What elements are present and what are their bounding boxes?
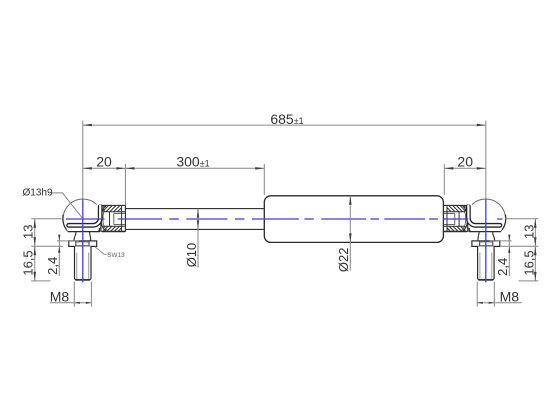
- svg-text:2,4: 2,4: [45, 257, 60, 275]
- left ball joint: threaded fitting body: [101, 205, 126, 231]
- svg-text:13: 13: [21, 224, 36, 238]
- svg-text:13: 13: [522, 225, 537, 239]
- right ball joint: housing corner patch: [468, 203, 472, 212]
- left ball joint: socket cup cavity: [103, 212, 111, 227]
- dimension 20 (right): [444, 167, 486, 169]
- left ball joint: ball circle: [63, 199, 103, 231]
- dimension 16,5 (left): [34, 246, 36, 281]
- cylinder tube: [264, 196, 443, 243]
- right ball joint: ball circle: [466, 199, 506, 231]
- left ball joint: fitting hatch bottom: [103, 226, 105, 228]
- right ball joint: stud shoulder line: [478, 251, 495, 253]
- right ball joint: threaded fitting body: [443, 205, 468, 231]
- dimension 16,5 (right): [534, 246, 536, 281]
- right ball joint: stud neck: [493, 232, 495, 241]
- dimension 2,4 (right): [508, 235, 510, 276]
- svg-text:Ø22: Ø22: [336, 248, 351, 273]
- right ball joint: fitting inner thread lines: [443, 211, 465, 213]
- dimension Ø10 rod: [197, 209, 199, 268]
- right ball joint: socket cup cavity: [458, 212, 466, 227]
- svg-text:16,5: 16,5: [21, 250, 36, 275]
- dimension 2,4 (left): [58, 235, 60, 276]
- right ball joint: fitting hatch top: [464, 206, 466, 208]
- dimension 685±1: [83, 124, 486, 126]
- dimension M8 (right): [477, 302, 521, 304]
- dimension M8 (left): [50, 302, 92, 304]
- left ball joint: stud shoulder line: [75, 251, 92, 253]
- right ball joint: housing body: [444, 229, 501, 232]
- svg-text:20: 20: [457, 153, 473, 169]
- left ball vertical centerline: [82, 199, 84, 283]
- right ball vertical centerline: [485, 199, 487, 283]
- label SW13 with leader: [95, 247, 107, 255]
- svg-text:16,5: 16,5: [522, 250, 537, 275]
- left ball joint: hex nut SW13: [69, 241, 97, 247]
- right ball joint: fitting hatch bottom: [464, 226, 466, 228]
- svg-text:2,4: 2,4: [495, 258, 510, 276]
- left ball joint: housing body: [68, 229, 125, 232]
- svg-text:Ø13h9: Ø13h9: [23, 188, 53, 199]
- left ball joint: fitting inner thread lines: [103, 211, 125, 213]
- dimension 300±1: [125, 167, 264, 169]
- label Ø13h9 with leader: [51, 193, 83, 219]
- dimension Ø22 cylinder: [349, 196, 351, 271]
- left ball joint: threaded stud M8: [75, 246, 92, 279]
- svg-text:SW13: SW13: [107, 252, 125, 259]
- left ball joint: socket slot lip: [69, 207, 101, 226]
- dimension 13 (right): [534, 219, 536, 247]
- svg-text:Ø10: Ø10: [184, 243, 199, 268]
- svg-text:20: 20: [96, 153, 112, 169]
- dimension 13 (left): [34, 219, 36, 247]
- svg-text:M8: M8: [500, 288, 520, 304]
- dimension 20 (left): [83, 167, 126, 169]
- right ball joint assembly (mirrored): [443, 199, 506, 280]
- left ball joint: housing corner patch: [97, 203, 101, 212]
- right ball joint: hex nut SW13: [472, 241, 500, 247]
- left ball joint: housing lower-left outline: [63, 215, 67, 230]
- right ball joint: housing lower-left outline: [502, 215, 506, 230]
- svg-text:M8: M8: [50, 288, 70, 304]
- left ball joint: fitting hatch top: [103, 206, 105, 208]
- right ball joint: socket slot lip: [468, 207, 500, 226]
- main horizontal centerline: [66, 218, 105, 220]
- right ball joint: threaded stud M8: [478, 246, 495, 279]
- left ball joint: stud neck: [74, 232, 76, 241]
- piston rod: [125, 209, 264, 230]
